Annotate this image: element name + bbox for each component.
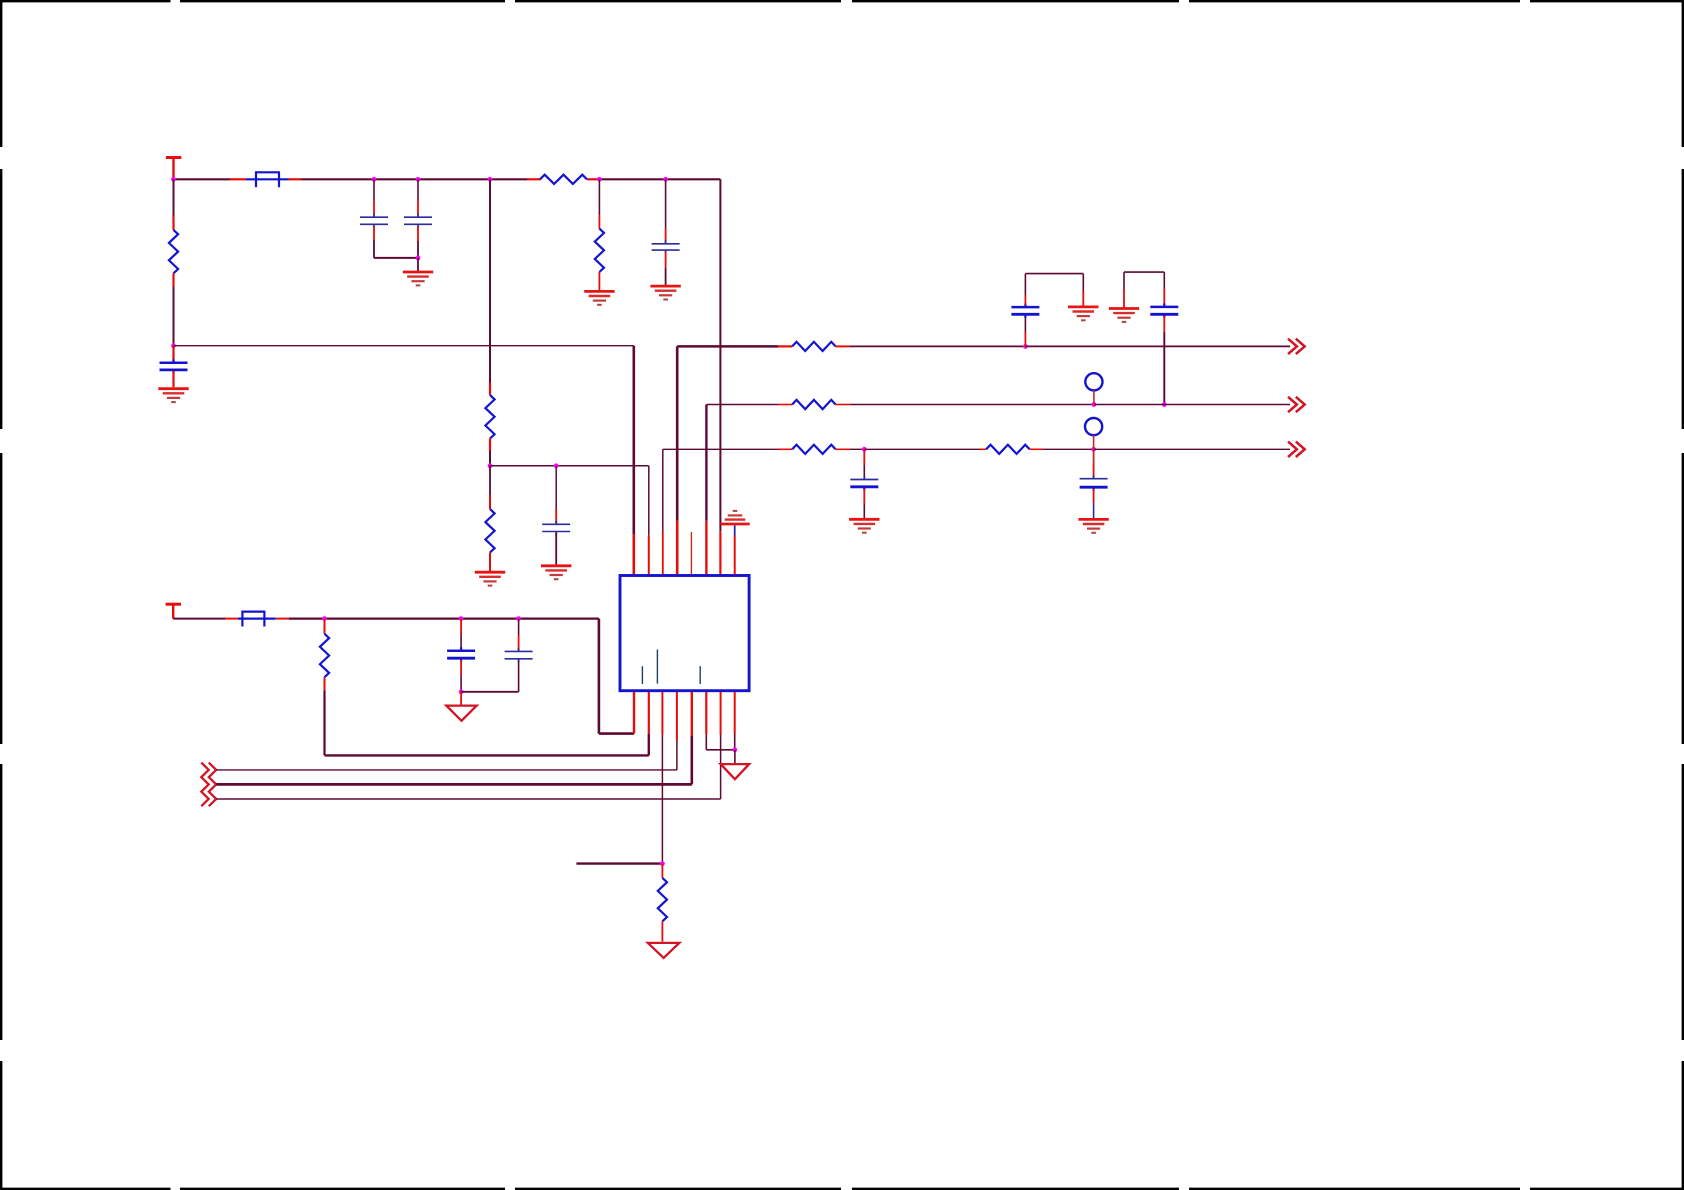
wire pin8 drop bbox=[734, 692, 736, 750]
capacitor C8 bbox=[1011, 304, 1039, 318]
ground GND5 bbox=[475, 572, 505, 585]
wire pin4 rise bbox=[676, 346, 679, 574]
fuse F2 bbox=[238, 611, 276, 627]
wire R5 top lead bbox=[489, 466, 491, 509]
node junction line2-C9 bbox=[1162, 402, 1167, 407]
wire line1-left drop to pin1 bbox=[632, 346, 635, 575]
resistor R11 bbox=[658, 878, 667, 921]
wire O2 stub bbox=[1093, 435, 1095, 449]
ground GND2 bbox=[403, 272, 433, 285]
node junction C6C7 bbox=[459, 689, 464, 694]
wire C6C7 bottom link bbox=[461, 691, 518, 693]
wire R3 bottom lead bbox=[489, 439, 491, 466]
resistor R4 bbox=[595, 229, 604, 272]
wire C2 bottom lead bbox=[374, 226, 418, 258]
U1 inner mark 1 bbox=[641, 666, 643, 684]
ground GND4 bbox=[650, 286, 680, 299]
wire C4 bottom lead bbox=[665, 252, 667, 285]
ground triangle GND12 bbox=[446, 706, 476, 721]
wire net-mid drop to pin2 bbox=[648, 466, 650, 575]
fuse F1 bbox=[246, 171, 289, 187]
wire R10 bottom and run to pin2 bbox=[325, 677, 649, 755]
node junction rail1-divider bbox=[488, 177, 493, 182]
ground triangle GND13 bbox=[721, 764, 750, 779]
node junction rail2-C7 bbox=[516, 616, 521, 621]
wire line1-left bbox=[174, 345, 634, 347]
wire line3 c bbox=[864, 448, 986, 450]
wire line2 a bbox=[706, 404, 792, 406]
wire C10 bottom lead bbox=[863, 489, 865, 519]
wire C3 top lead bbox=[417, 179, 419, 215]
node junction left-line1 bbox=[171, 343, 176, 348]
wire R11 top lead bbox=[661, 864, 663, 878]
wire C9 top bracket bbox=[1124, 272, 1164, 308]
wire T2 stub bbox=[734, 750, 736, 763]
capacitor C11 bbox=[1080, 475, 1108, 491]
resistor R2 bbox=[169, 230, 178, 273]
resistor R9 bbox=[986, 445, 1029, 454]
wire C5 bottom lead bbox=[555, 533, 557, 565]
wire divider upper bbox=[489, 179, 491, 395]
U1 inner mark 2 bbox=[656, 650, 658, 684]
resistor R1 series in rail1 bbox=[540, 175, 587, 184]
wire rail2 drop to pin1 bbox=[599, 619, 634, 734]
wire C4 top lead bbox=[665, 179, 667, 242]
wire C10 top lead bbox=[863, 449, 865, 478]
ground triangle GND14 bbox=[648, 943, 679, 958]
wire C5 top lead bbox=[555, 466, 557, 523]
capacitor C2 bbox=[360, 214, 388, 228]
capacitor C3 bbox=[404, 214, 432, 228]
node junction R11 bbox=[660, 861, 665, 866]
capacitor C5 bbox=[542, 521, 570, 535]
ground GND1 bbox=[158, 389, 188, 402]
wire pin6 drop bbox=[706, 692, 735, 750]
wire line3 e bbox=[1094, 448, 1290, 450]
power symbol VCC2 bbox=[166, 604, 181, 618]
test point O1 circle bbox=[1085, 373, 1102, 390]
node junction rail1-C3 bbox=[416, 177, 421, 182]
wire C9 top lead bbox=[1163, 272, 1165, 305]
wire C7 top lead bbox=[518, 619, 520, 650]
wire busB bbox=[216, 692, 692, 784]
resistor R6 bbox=[792, 342, 835, 351]
capacitor C1 bbox=[160, 359, 188, 373]
wire line1-right b bbox=[836, 345, 1026, 347]
node junction rail2-C6 bbox=[459, 616, 464, 621]
wire C11 top lead bbox=[1093, 449, 1095, 477]
wire pin3 drop bbox=[661, 692, 663, 864]
resistor R7 bbox=[792, 400, 835, 409]
wire line3 a bbox=[663, 448, 792, 450]
wire busC bbox=[216, 692, 720, 799]
wire pin3 rise bbox=[662, 449, 664, 574]
wire rail1 top bbox=[174, 178, 721, 180]
ground GND10 bbox=[1078, 519, 1108, 532]
resistor R10 bbox=[320, 634, 329, 677]
wire C7 bottom lead bbox=[518, 661, 520, 692]
op-amp U1 body bbox=[620, 576, 749, 691]
ground GND3 bbox=[584, 291, 614, 304]
resistor R5 bbox=[485, 509, 494, 552]
power symbol VCC1 bbox=[166, 158, 181, 180]
node junction line3-O2 bbox=[1091, 447, 1096, 452]
wire line1-right c bbox=[1025, 345, 1290, 347]
wire R10 top lead bbox=[324, 619, 326, 634]
capacitor C4 bbox=[652, 240, 680, 253]
wire C11 bottom lead bbox=[1093, 489, 1095, 518]
wire C3 bottom lead bbox=[417, 226, 419, 258]
capacitor C7 bbox=[505, 648, 533, 662]
wire R4 top lead bbox=[598, 179, 600, 228]
wire C8 top bracket bbox=[1025, 274, 1083, 306]
wire C9 down to line2 bbox=[1163, 316, 1165, 405]
wire stub net label bbox=[576, 862, 662, 864]
node junction line1-C8 bbox=[1023, 344, 1028, 349]
ground GND7 bbox=[1068, 307, 1098, 320]
U1 inner mark 3 bbox=[699, 666, 701, 684]
ground GND11 inverted above pin8 bbox=[720, 511, 749, 575]
wire O1 stub bbox=[1093, 390, 1095, 404]
node junction rail2-R10 bbox=[322, 616, 327, 621]
wire net-mid horizontal bbox=[490, 465, 649, 467]
resistor R8 bbox=[792, 445, 835, 454]
wire line2 c bbox=[1094, 404, 1290, 406]
node junction line3-C10 bbox=[862, 447, 867, 452]
wire C1 top lead bbox=[172, 346, 174, 362]
wire pin6 rise bbox=[705, 405, 707, 575]
wire line3 d bbox=[1030, 448, 1094, 450]
U1 pin5 top stub bbox=[690, 532, 692, 574]
wire C1 bottom lead bbox=[172, 371, 174, 387]
node junction rail1-C4 bbox=[663, 177, 668, 182]
ground GND9 bbox=[849, 519, 879, 532]
bus entry arrows left bbox=[201, 763, 216, 807]
resistor R3 bbox=[485, 395, 494, 438]
capacitor C9 bbox=[1150, 303, 1178, 317]
wire C2 top lead bbox=[373, 179, 375, 215]
node junction mid-C5 bbox=[554, 463, 559, 468]
wire T1 stub bbox=[460, 692, 462, 705]
node junction divider mid bbox=[488, 463, 493, 468]
wire rail2 bbox=[173, 618, 599, 620]
node junction C2C3 bbox=[416, 256, 421, 261]
node junction rail1-R4 bbox=[597, 177, 602, 182]
node junction pin6pin8 bbox=[733, 747, 738, 752]
ground GND8 bbox=[1109, 309, 1139, 322]
capacitor C6 bbox=[447, 647, 475, 662]
wire R2 bottom lead bbox=[172, 273, 174, 345]
wire line3 b bbox=[836, 448, 865, 450]
wire R2 top lead bbox=[173, 179, 175, 230]
wire R11 bottom lead bbox=[661, 921, 663, 941]
node junction line2-O1 bbox=[1092, 402, 1097, 407]
port arrow OUT2 bbox=[1288, 397, 1305, 412]
U1 top pin leads bbox=[0, 0, 1, 1]
capacitor C10 bbox=[850, 476, 878, 490]
wire C6 top lead bbox=[460, 619, 462, 649]
wire rail1 drop to pin7 bbox=[719, 179, 721, 574]
wire C3 gnd lead bbox=[417, 258, 419, 271]
test point O2 circle bbox=[1085, 418, 1102, 435]
node junction rail1-R2 bbox=[171, 177, 176, 182]
wire line1-right a bbox=[677, 345, 792, 348]
wire R4 bottom lead bbox=[598, 272, 600, 291]
node junction rail1-C2 bbox=[372, 177, 377, 182]
wire C6 bottom lead bbox=[460, 660, 462, 692]
port arrow OUT3 bbox=[1288, 442, 1305, 457]
port arrow OUT1 bbox=[1288, 339, 1305, 354]
wire R5 bottom lead bbox=[489, 553, 491, 572]
wire C8 bottom lead bbox=[1024, 317, 1026, 347]
wire busA bbox=[216, 692, 677, 770]
wire line2 b bbox=[836, 404, 1094, 406]
ground GND6 bbox=[541, 566, 571, 579]
